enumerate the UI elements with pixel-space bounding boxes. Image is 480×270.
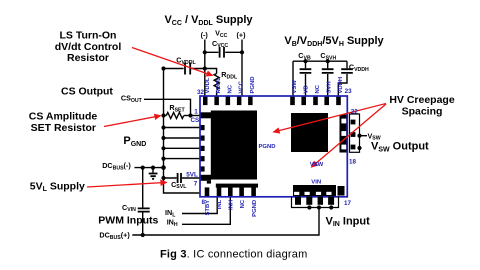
svg-text:INH: INH: [229, 200, 235, 210]
svg-text:VB/VDDH/5VH Supply: VB/VDDH/5VH Supply: [284, 35, 384, 48]
svg-text:Fig 3. IC connection diagram: Fig 3. IC connection diagram: [160, 248, 307, 260]
svg-text:5VL: 5VL: [186, 171, 198, 178]
svg-text:PGND: PGND: [252, 200, 258, 217]
svg-text:22: 22: [351, 108, 359, 115]
svg-text:(-): (-): [201, 31, 209, 40]
svg-text:VSW: VSW: [310, 162, 324, 168]
svg-text:VIN Input: VIN Input: [326, 215, 371, 228]
svg-text:NC: NC: [315, 84, 321, 93]
svg-text:(+): (+): [237, 31, 247, 40]
svg-text:LS Turn-On: LS Turn-On: [60, 30, 117, 42]
svg-text:VB: VB: [303, 85, 309, 93]
svg-text:VDDL: VDDL: [205, 77, 211, 93]
svg-text:HV Creepage: HV Creepage: [389, 94, 455, 106]
svg-text:SET Resistor: SET Resistor: [31, 122, 96, 134]
svg-text:INL: INL: [217, 199, 223, 209]
svg-text:CS Output: CS Output: [61, 86, 113, 98]
svg-text:5VL Supply: 5VL Supply: [30, 180, 85, 193]
svg-text:PWM Inputs: PWM Inputs: [98, 215, 158, 227]
svg-text:VIN: VIN: [311, 179, 321, 185]
svg-text:CS: CS: [191, 117, 200, 124]
svg-text:SVH: SVH: [326, 81, 332, 93]
svg-text:32: 32: [197, 89, 205, 96]
svg-text:17: 17: [344, 200, 352, 207]
svg-text:VSW: VSW: [292, 80, 298, 94]
svg-text:NC: NC: [240, 199, 246, 208]
svg-text:NC: NC: [227, 84, 233, 93]
svg-text:CS Amplitude: CS Amplitude: [29, 110, 98, 122]
svg-text:RDDL: RDDL: [216, 77, 222, 94]
svg-text:VCC: VCC: [239, 80, 245, 93]
svg-text:Resistor: Resistor: [67, 52, 109, 64]
svg-text:dV/dt Control: dV/dt Control: [55, 41, 122, 53]
svg-text:1: 1: [194, 108, 198, 115]
svg-text:VDDH: VDDH: [338, 77, 344, 94]
svg-text:7: 7: [194, 181, 198, 188]
svg-text:23: 23: [345, 88, 353, 95]
svg-text:18: 18: [349, 158, 357, 165]
svg-text:STBY: STBY: [205, 200, 211, 216]
svg-text:Spacing: Spacing: [402, 105, 443, 117]
svg-text:PGND: PGND: [250, 76, 256, 93]
svg-text:PGND: PGND: [259, 144, 276, 150]
